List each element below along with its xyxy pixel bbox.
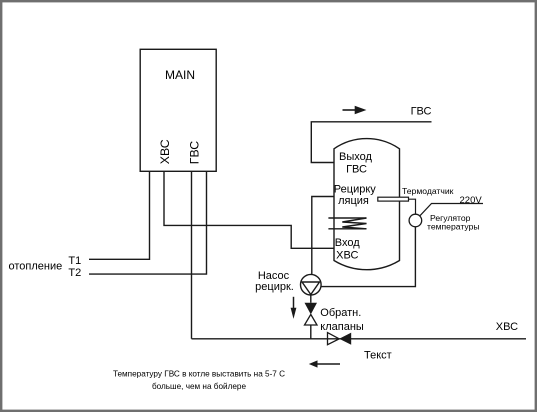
svg-text:Термодатчик: Термодатчик xyxy=(402,186,454,196)
pipe: recirculation down to pump xyxy=(312,197,334,275)
svg-text:220V: 220V xyxy=(460,195,483,206)
pipe: cold water main ХВС xyxy=(192,338,527,340)
flow arrow left xyxy=(309,360,340,367)
svg-text:Т2: Т2 xyxy=(68,267,81,279)
flow arrow down xyxy=(291,297,297,319)
boiler MAIN xyxy=(140,49,216,171)
flow arrow ГВС xyxy=(343,106,367,115)
svg-text:ГВС: ГВС xyxy=(187,141,201,164)
wire: 220V feed xyxy=(420,204,483,216)
svg-text:MAIN: MAIN xyxy=(165,68,195,82)
svg-text:ХВС: ХВС xyxy=(336,250,358,262)
pump Насос рецирк. xyxy=(301,274,322,295)
wire: boiler port down to cold water main xyxy=(191,171,193,339)
svg-text:рецирк.: рецирк. xyxy=(255,281,294,293)
svg-text:ХВС: ХВС xyxy=(496,321,518,333)
wire: boiler port to tank cold input xyxy=(164,171,334,248)
svg-text:температуры: температуры xyxy=(427,222,480,232)
valve on cold water main (open half) xyxy=(328,333,340,345)
svg-text:больше, чем на бойлере: больше, чем на бойлере xyxy=(152,382,247,391)
wire: boiler port to T1 xyxy=(89,171,150,259)
svg-text:Температуру ГВС в котле выстав: Температуру ГВС в котле выставить на 5-7… xyxy=(113,369,285,378)
valve on cold water main (filled half) xyxy=(339,333,351,345)
wire: boiler port to T2 xyxy=(89,171,207,274)
wire: check valves to cold water main xyxy=(310,325,312,339)
svg-text:Обратн.: Обратн. xyxy=(320,307,361,319)
svg-text:Выход: Выход xyxy=(339,151,372,163)
heating coil xyxy=(328,218,366,229)
svg-text:отопление: отопление xyxy=(9,261,63,273)
wire: pump to check valves xyxy=(310,295,312,303)
svg-text:ГВС: ГВС xyxy=(411,106,432,118)
svg-text:ляция: ляция xyxy=(338,195,369,207)
svg-text:Текст: Текст xyxy=(364,350,392,362)
svg-text:клапаны: клапаны xyxy=(320,321,364,333)
pipe: thermostat to pump outlet xyxy=(321,227,415,287)
check valve (open) xyxy=(305,314,318,325)
svg-text:ХВС: ХВС xyxy=(158,139,172,164)
thermo sensor bar xyxy=(378,197,409,201)
pipe: tank hot water output xyxy=(311,122,431,163)
svg-text:Вход: Вход xyxy=(335,237,360,249)
svg-text:Т1: Т1 xyxy=(68,255,81,267)
check valve (filled) xyxy=(305,303,318,315)
tank boiler vessel xyxy=(334,139,400,270)
svg-text:ГВС: ГВС xyxy=(346,164,367,176)
wire: sensor to thermostat xyxy=(409,199,416,214)
thermostat Регулятор температуры xyxy=(409,214,422,227)
svg-text:Рецирку: Рецирку xyxy=(334,183,376,195)
